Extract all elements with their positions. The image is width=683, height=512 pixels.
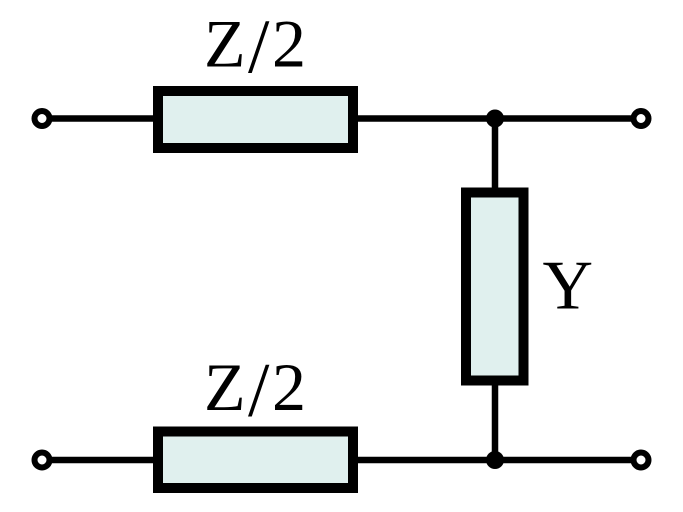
junction node (bottom) [486, 451, 504, 469]
resistor Z/2 (top series impedance box) [158, 91, 353, 148]
terminal: port 4 (bottom-right open circle) [634, 453, 649, 468]
admittance Y (shunt element box) [466, 193, 524, 381]
terminal: port 1 (top-left open circle) [35, 111, 50, 126]
junction node (top) [486, 110, 504, 128]
terminal: port 2 (top-right open circle) [634, 111, 649, 126]
wire: top rail from Z/2 to port 2 through node [358, 115, 642, 122]
resistor Z/2 (bottom series impedance box) [158, 432, 353, 489]
svg-text:Y: Y [543, 248, 594, 325]
svg-text:Z/2: Z/2 [204, 347, 308, 433]
wire: bottom-left lead from port 3 to Z/2 [42, 457, 158, 464]
wire: vertical from Y down to bottom node [492, 383, 499, 460]
wire: bottom rail from Z/2 to port 4 through node [358, 457, 641, 464]
terminal: port 3 (bottom-left open circle) [35, 453, 50, 468]
wire: vertical from top node down to Y [492, 119, 499, 191]
wire: top-left lead from port 1 to Z/2 [42, 115, 158, 122]
svg-text:Z/2: Z/2 [204, 3, 308, 89]
